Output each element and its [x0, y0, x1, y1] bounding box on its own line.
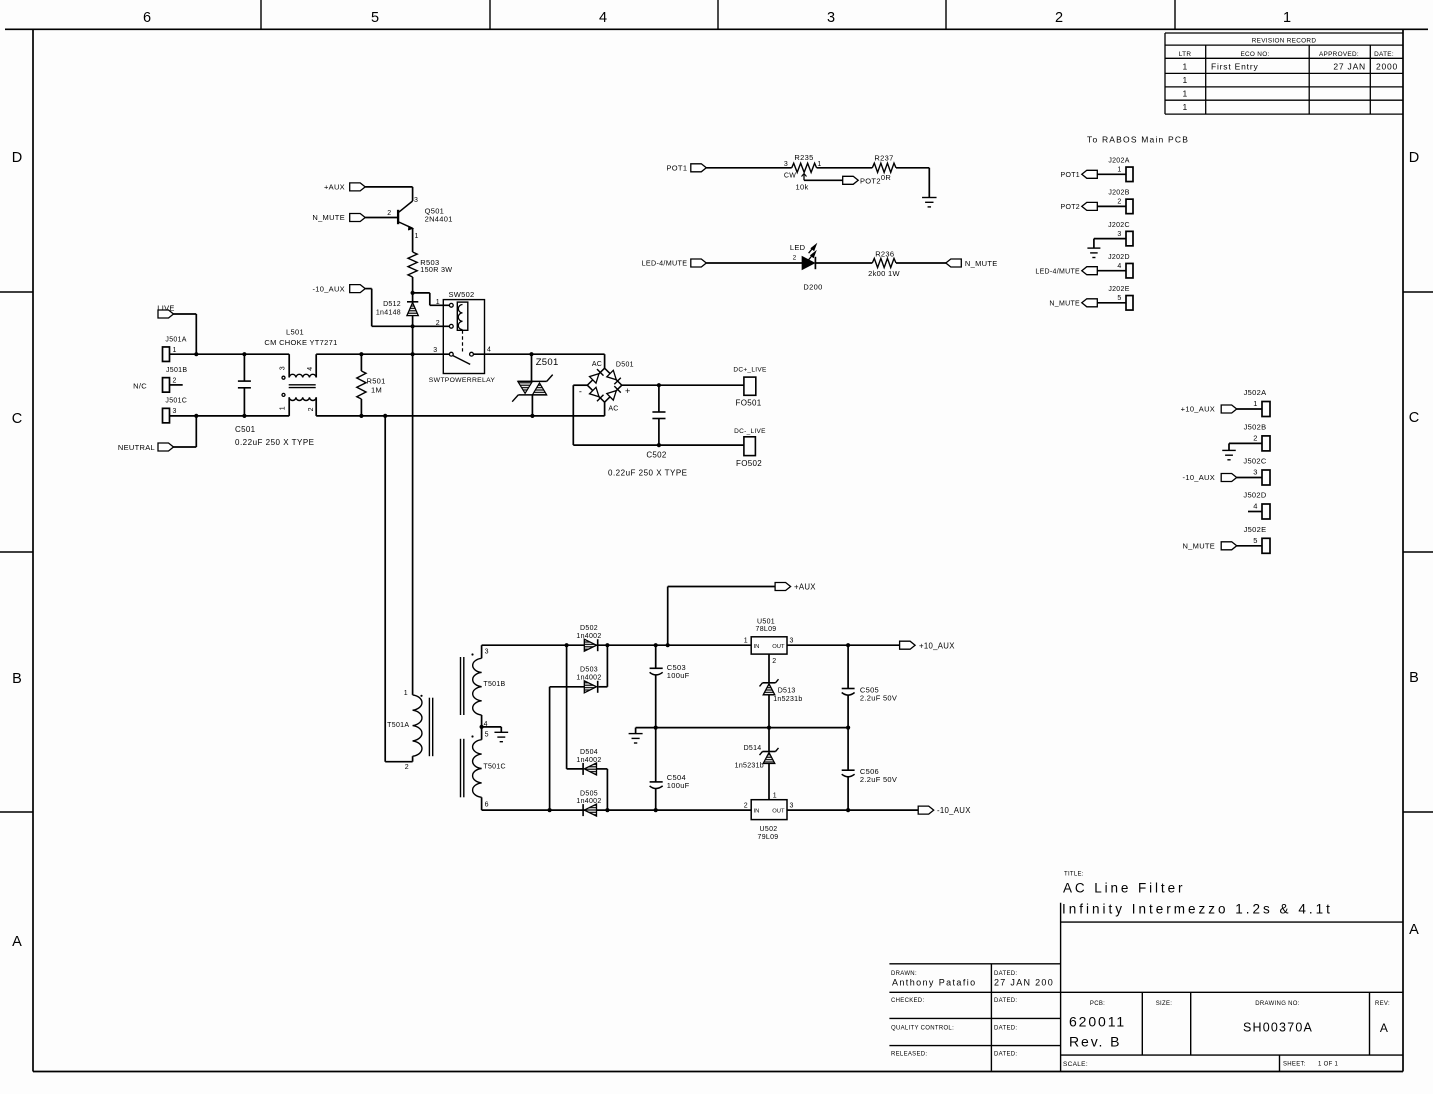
svg-text:2: 2	[744, 803, 748, 810]
svg-text:150R 3W: 150R 3W	[420, 265, 452, 274]
svg-text:SW502: SW502	[448, 290, 474, 299]
svg-text:LIVE: LIVE	[157, 303, 174, 312]
svg-text:POT1: POT1	[1061, 172, 1080, 179]
svg-text:N/C: N/C	[133, 381, 147, 390]
svg-text:1n5231b: 1n5231b	[735, 762, 764, 769]
svg-text:C: C	[12, 411, 22, 427]
svg-text:LED-4/MUTE: LED-4/MUTE	[1035, 268, 1080, 275]
svg-text:2000: 2000	[1376, 62, 1398, 72]
svg-text:2: 2	[436, 320, 440, 327]
svg-text:SH00370A: SH00370A	[1243, 1021, 1313, 1035]
svg-text:1: 1	[1182, 75, 1187, 85]
svg-text:B: B	[1409, 670, 1419, 686]
svg-text:OUT: OUT	[772, 809, 785, 815]
svg-text:3: 3	[827, 10, 835, 26]
svg-text:R501: R501	[367, 377, 386, 386]
svg-text:5: 5	[1117, 295, 1121, 302]
svg-text:1: 1	[1182, 62, 1187, 72]
svg-text:78L09: 78L09	[756, 626, 777, 633]
svg-text:1n4002: 1n4002	[576, 757, 601, 764]
svg-text:T501A: T501A	[387, 722, 409, 729]
svg-text:J502E: J502E	[1244, 525, 1267, 534]
svg-text:J501B: J501B	[166, 367, 187, 374]
svg-text:D503: D503	[580, 667, 598, 674]
svg-text:D501: D501	[616, 361, 634, 368]
svg-text:OUT: OUT	[772, 644, 785, 650]
svg-text:2: 2	[387, 210, 391, 217]
svg-text:C501: C501	[235, 425, 256, 434]
svg-text:1M: 1M	[371, 386, 382, 395]
svg-text:R237: R237	[874, 154, 893, 163]
svg-text:Infinity Intermezzo 1.2s & 4.1: Infinity Intermezzo 1.2s & 4.1t	[1062, 902, 1333, 917]
svg-text:J202A: J202A	[1108, 158, 1129, 165]
svg-text:100uF: 100uF	[667, 671, 690, 680]
svg-text:6: 6	[485, 802, 489, 809]
svg-text:3: 3	[433, 347, 437, 354]
svg-text:620011: 620011	[1069, 1014, 1126, 1030]
svg-text:QUALITY CONTROL:: QUALITY CONTROL:	[891, 1026, 954, 1032]
svg-text:D504: D504	[580, 749, 598, 756]
svg-text:REVISION RECORD: REVISION RECORD	[1252, 38, 1317, 45]
svg-text:LED-4/MUTE: LED-4/MUTE	[642, 259, 688, 268]
svg-text:1: 1	[817, 161, 821, 168]
svg-text:2N4401: 2N4401	[425, 215, 453, 224]
svg-text:CW: CW	[784, 173, 796, 180]
svg-text:POT2: POT2	[860, 176, 881, 185]
svg-text:1n4002: 1n4002	[576, 633, 601, 640]
svg-text:D513: D513	[778, 688, 796, 695]
svg-text:3: 3	[790, 638, 794, 645]
svg-text:DATED:: DATED:	[994, 1052, 1017, 1058]
svg-text:0.22uF 250 X TYPE: 0.22uF 250 X TYPE	[608, 469, 688, 478]
svg-text:1: 1	[1117, 167, 1121, 174]
svg-text:NEUTRAL: NEUTRAL	[118, 443, 155, 452]
svg-text:0.22uF 250 X TYPE: 0.22uF 250 X TYPE	[235, 438, 315, 447]
svg-text:U501: U501	[757, 619, 775, 626]
svg-text:J502D: J502D	[1243, 491, 1266, 500]
svg-text:+AUX: +AUX	[324, 183, 345, 192]
svg-text:3: 3	[790, 803, 794, 810]
svg-text:B: B	[12, 671, 22, 687]
svg-text:FO502: FO502	[736, 459, 762, 468]
svg-text:2: 2	[1117, 199, 1121, 206]
svg-text:J501C: J501C	[165, 398, 187, 405]
svg-text:3: 3	[173, 408, 177, 415]
svg-text:4: 4	[1253, 502, 1257, 511]
svg-text:J202E: J202E	[1108, 286, 1129, 293]
svg-text:SCALE:: SCALE:	[1063, 1061, 1088, 1068]
svg-text:1 OF 1: 1 OF 1	[1318, 1062, 1339, 1068]
svg-text:10k: 10k	[796, 183, 809, 192]
svg-text:2: 2	[793, 255, 797, 262]
svg-text:Anthony Patafio: Anthony Patafio	[892, 978, 977, 988]
svg-text:1: 1	[1283, 10, 1291, 26]
svg-text:T501C: T501C	[483, 763, 506, 770]
svg-text:J202D: J202D	[1108, 254, 1130, 261]
svg-text:J502C: J502C	[1243, 457, 1266, 466]
svg-text:4: 4	[484, 721, 488, 728]
svg-text:SWTPOWERRELAY: SWTPOWERRELAY	[429, 377, 496, 384]
svg-text:3: 3	[485, 649, 489, 656]
svg-text:D512: D512	[383, 301, 401, 308]
svg-text:1n5231b: 1n5231b	[773, 696, 802, 703]
svg-text:T501B: T501B	[483, 681, 505, 688]
svg-text:To RABOS Main PCB: To RABOS Main PCB	[1087, 135, 1189, 145]
svg-text:Z501: Z501	[536, 357, 559, 368]
svg-text:1: 1	[744, 638, 748, 645]
svg-text:1n4002: 1n4002	[576, 798, 601, 805]
svg-text:REV:: REV:	[1375, 1001, 1390, 1007]
svg-text:First Entry: First Entry	[1211, 62, 1259, 72]
svg-text:4: 4	[487, 347, 491, 354]
svg-text:SIZE:: SIZE:	[1156, 1001, 1173, 1007]
svg-text:A: A	[1409, 922, 1419, 938]
svg-text:1: 1	[1182, 89, 1187, 99]
svg-text:POT1: POT1	[667, 163, 688, 172]
svg-text:IN: IN	[754, 809, 760, 815]
svg-text:FO501: FO501	[736, 399, 762, 408]
svg-text:5: 5	[1253, 536, 1257, 545]
svg-text:2: 2	[405, 764, 409, 771]
svg-text:RELEASED:: RELEASED:	[891, 1052, 927, 1058]
svg-text:1: 1	[436, 299, 440, 306]
svg-text:-10_AUX: -10_AUX	[312, 284, 345, 293]
svg-text:-10_AUX: -10_AUX	[1183, 473, 1216, 482]
svg-text:Rev. B: Rev. B	[1069, 1034, 1121, 1050]
svg-text:5: 5	[485, 732, 489, 739]
svg-text:100uF: 100uF	[667, 781, 690, 790]
svg-text:J502B: J502B	[1244, 423, 1267, 432]
svg-text:+AUX: +AUX	[794, 583, 816, 592]
svg-text:DATED:: DATED:	[994, 1026, 1017, 1032]
svg-text:N_MUTE: N_MUTE	[1049, 301, 1080, 308]
svg-text:3: 3	[1117, 231, 1121, 238]
svg-text:5: 5	[371, 10, 379, 26]
svg-text:N_MUTE: N_MUTE	[965, 259, 998, 268]
svg-text:2: 2	[173, 377, 177, 384]
svg-text:1n4002: 1n4002	[576, 674, 601, 681]
svg-text:J202C: J202C	[1108, 222, 1130, 229]
svg-text:DATED:: DATED:	[994, 998, 1017, 1004]
svg-text:2.2uF 50V: 2.2uF 50V	[860, 693, 897, 702]
svg-text:1: 1	[404, 690, 408, 697]
svg-text:0R: 0R	[881, 173, 891, 182]
svg-text:1: 1	[173, 347, 177, 354]
svg-text:1: 1	[1182, 102, 1187, 112]
svg-text:D505: D505	[580, 790, 598, 797]
svg-text:J501A: J501A	[165, 337, 186, 344]
svg-text:POT2: POT2	[1061, 204, 1080, 211]
svg-text:4: 4	[599, 10, 607, 26]
svg-text:4: 4	[1117, 263, 1121, 270]
svg-text:3: 3	[280, 366, 287, 370]
svg-text:D514: D514	[744, 745, 762, 752]
svg-text:PCB:: PCB:	[1090, 1001, 1105, 1007]
svg-text:N_MUTE: N_MUTE	[1182, 542, 1215, 551]
svg-text:D: D	[1409, 150, 1419, 166]
svg-text:1: 1	[415, 233, 419, 240]
svg-text:DATED:: DATED:	[994, 971, 1017, 977]
svg-text:DRAWING NO:: DRAWING NO:	[1255, 1001, 1299, 1007]
svg-text:LED: LED	[790, 243, 806, 252]
svg-text:AC: AC	[592, 361, 602, 368]
svg-text:1: 1	[1253, 399, 1257, 408]
svg-text:CM CHOKE YT7271: CM CHOKE YT7271	[264, 338, 337, 347]
svg-text:LTR: LTR	[1179, 51, 1192, 58]
svg-text:2: 2	[308, 407, 315, 411]
svg-text:DRAWN:: DRAWN:	[891, 971, 917, 977]
svg-text:L501: L501	[286, 328, 304, 337]
svg-text:ECO NO:: ECO NO:	[1240, 51, 1269, 58]
svg-text:U502: U502	[760, 826, 778, 833]
svg-text:TITLE:: TITLE:	[1064, 872, 1084, 878]
svg-text:3: 3	[784, 161, 788, 168]
svg-text:AC Line Filter: AC Line Filter	[1063, 881, 1185, 896]
svg-text:3: 3	[414, 197, 418, 204]
svg-text:1: 1	[773, 792, 777, 799]
svg-text:2: 2	[1253, 434, 1257, 443]
svg-text:SHEET:: SHEET:	[1283, 1062, 1306, 1068]
svg-text:DC-_LIVE: DC-_LIVE	[734, 428, 766, 435]
svg-text:-10_AUX: -10_AUX	[937, 806, 971, 815]
svg-text:CHECKED:: CHECKED:	[891, 998, 924, 1004]
svg-text:+10_AUX: +10_AUX	[919, 641, 955, 650]
svg-text:A: A	[12, 934, 22, 950]
svg-text:C: C	[1409, 410, 1419, 426]
svg-text:3: 3	[1253, 468, 1257, 477]
svg-text:1: 1	[280, 406, 287, 410]
svg-text:6: 6	[143, 10, 151, 26]
svg-text:AC: AC	[608, 406, 618, 413]
svg-text:D200: D200	[803, 283, 822, 292]
svg-text:D502: D502	[580, 625, 598, 632]
svg-text:+: +	[625, 386, 631, 396]
svg-text:2: 2	[772, 658, 776, 665]
svg-text:R235: R235	[794, 153, 813, 162]
svg-text:1n4148: 1n4148	[376, 310, 401, 317]
svg-text:2: 2	[1055, 10, 1063, 26]
svg-text:R236: R236	[875, 250, 894, 259]
svg-text:DC+_LIVE: DC+_LIVE	[733, 367, 767, 374]
svg-text:J202B: J202B	[1108, 190, 1129, 197]
svg-text:+10_AUX: +10_AUX	[1181, 405, 1215, 414]
svg-text:79L09: 79L09	[758, 834, 779, 841]
svg-text:27 JAN 200: 27 JAN 200	[994, 978, 1054, 988]
svg-text:A: A	[1380, 1021, 1388, 1035]
svg-text:D: D	[12, 150, 22, 166]
svg-text:J502A: J502A	[1244, 388, 1267, 397]
svg-text:DATE:: DATE:	[1374, 51, 1394, 58]
svg-text:IN: IN	[754, 644, 760, 650]
svg-text:-: -	[579, 387, 582, 397]
svg-text:27 JAN: 27 JAN	[1333, 62, 1366, 72]
svg-text:C502: C502	[646, 451, 667, 460]
svg-text:4: 4	[307, 366, 314, 370]
svg-text:APPROVED:: APPROVED:	[1319, 51, 1359, 58]
svg-text:2.2uF 50V: 2.2uF 50V	[860, 775, 897, 784]
svg-text:2k00 1W: 2k00 1W	[868, 269, 900, 278]
svg-text:N_MUTE: N_MUTE	[312, 213, 345, 222]
